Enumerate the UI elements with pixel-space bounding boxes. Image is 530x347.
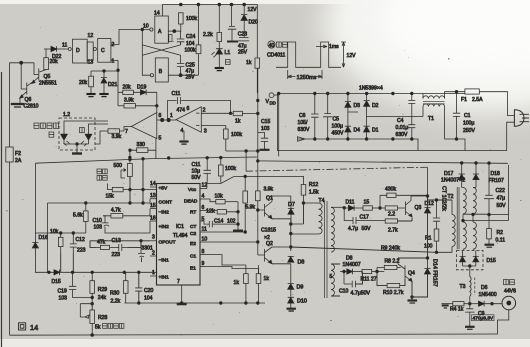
svg-text:500: 500 (114, 163, 123, 169)
svg-text:44V6: 44V6 (504, 289, 516, 295)
LED red (61, 128, 70, 146)
gate D (68, 39, 87, 63)
resistor R12 (301, 176, 319, 203)
svg-text:TL494: TL494 (173, 233, 188, 239)
resistor 2.2q3 (385, 206, 404, 218)
capacitor C19 (58, 272, 93, 301)
svg-text:10k: 10k (215, 194, 224, 200)
svg-text:7: 7 (125, 129, 128, 135)
wire op2 gnd pin (183, 131, 185, 140)
resistor 5.9k (243, 176, 256, 232)
svg-text:10: 10 (143, 24, 149, 30)
svg-text:1k: 1k (246, 60, 252, 66)
svg-text:−IN2: −IN2 (159, 210, 170, 216)
terminal VDD (266, 93, 279, 106)
svg-text:A: A (158, 29, 162, 35)
svg-text:Q5: Q5 (44, 74, 51, 80)
diode D19 (137, 85, 157, 96)
wire left feed (34, 163, 36, 233)
transistor Q5 (31, 63, 57, 87)
svg-text:R4 1k: R4 1k (450, 307, 464, 313)
label no-load CJK (504, 280, 515, 285)
svg-text:6: 6 (202, 205, 205, 211)
svg-text:C14: C14 (214, 219, 224, 225)
pin 9 E1 (190, 261, 207, 272)
pot 500 (114, 151, 133, 181)
svg-text:6: 6 (187, 106, 190, 112)
diode D11 (345, 200, 363, 211)
capacitor C5 (323, 94, 344, 140)
diode D4 (345, 121, 360, 139)
zener D21 (101, 75, 118, 93)
wire D15 bottom (463, 265, 476, 277)
svg-text:RT: RT (190, 210, 196, 216)
top rail 12V (163, 3, 258, 58)
wire T2 sec mid2 (462, 215, 509, 222)
capacitor C23a (227, 5, 238, 42)
wire 20k D21 top (91, 70, 118, 77)
ground 20k (86, 94, 95, 97)
svg-text:D18: D18 (491, 171, 501, 177)
diode D2 (364, 94, 379, 113)
label CJK delay-adjust (97, 169, 107, 180)
svg-text:12V: 12V (347, 53, 357, 59)
diode D10 (288, 297, 307, 308)
rail mid y156 (277, 95, 506, 151)
wire T2 primary (437, 200, 453, 252)
label C9 value (472, 315, 495, 322)
wire bridge AC nodes (348, 112, 423, 121)
svg-text:104: 104 (144, 296, 153, 302)
svg-text:C19: C19 (58, 289, 68, 295)
resistor 15 (363, 200, 385, 211)
ground op2 (179, 142, 188, 145)
pin 2 -IN1 (150, 251, 169, 264)
svg-text:IC1: IC1 (176, 224, 184, 230)
svg-text:D: D (76, 48, 80, 54)
pin 1 +IN1 (150, 270, 169, 281)
svg-text:+IN1: +IN1 (159, 275, 170, 281)
svg-text:D19: D19 (137, 85, 147, 91)
svg-text:2.2k: 2.2k (111, 299, 121, 305)
svg-text:11: 11 (62, 43, 67, 49)
svg-text:1N5399×4: 1N5399×4 (359, 86, 383, 92)
rail bottom (10, 334, 498, 337)
svg-text:Q4: Q4 (408, 271, 415, 277)
resistor 15k (106, 158, 157, 204)
svg-text:C10: C10 (93, 218, 103, 224)
ground D10 (287, 309, 296, 311)
svg-text:C1: C1 (464, 113, 471, 119)
svg-text:2: 2 (112, 42, 115, 48)
wire op2 in- (201, 112, 232, 115)
pin 10 E2 (190, 237, 207, 248)
svg-text:50V: 50V (497, 203, 507, 209)
gate pins 12 13 (87, 33, 93, 66)
diode D17b (473, 164, 479, 187)
svg-text:C20: C20 (144, 288, 154, 294)
svg-text:R30: R30 (110, 291, 120, 297)
label green CJK (80, 128, 85, 133)
svg-text:F1: F1 (461, 97, 467, 103)
pin 5 CT (190, 217, 208, 231)
wire Q3 (411, 195, 429, 198)
choke T1 (423, 96, 445, 122)
capacitor C25 (168, 63, 198, 81)
svg-text:1k: 1k (264, 276, 270, 282)
svg-text:5: 5 (202, 217, 205, 223)
dashed box D15 (457, 251, 484, 270)
svg-text:F2: F2 (15, 151, 21, 157)
resistor 330 (129, 142, 156, 158)
resistor 47k (96, 240, 115, 250)
wire led common (64, 143, 89, 153)
svg-text:1k: 1k (235, 119, 241, 125)
capacitor C1 (453, 90, 476, 140)
transformer T2 (448, 185, 477, 249)
svg-text:C2: C2 (190, 231, 196, 237)
svg-text:Q3: Q3 (415, 205, 422, 211)
transistor Q2 (258, 241, 291, 264)
svg-text:2.5A: 2.5A (472, 97, 483, 103)
resistor 20k horiz (118, 85, 138, 95)
fuse F1 (461, 89, 483, 103)
diode D15b (473, 251, 479, 267)
svg-text:100k: 100k (225, 166, 236, 172)
wire indicator top (64, 121, 108, 144)
pin 6 RT (190, 205, 217, 216)
svg-text:D16: D16 (39, 235, 49, 241)
pin 4 DEAD (184, 194, 216, 205)
svg-text:D11: D11 (346, 200, 355, 206)
svg-text:2A: 2A (15, 158, 22, 164)
svg-text:102: 102 (227, 219, 236, 225)
svg-text:3301: 3301 (142, 246, 153, 252)
svg-text:1: 1 (112, 59, 115, 65)
jack output (502, 296, 516, 310)
svg-text:9: 9 (202, 261, 205, 267)
ground L1 (215, 68, 224, 71)
resistor 3.9k r (256, 187, 274, 256)
diode D6 (469, 301, 502, 307)
label fig14 (19, 323, 39, 332)
svg-text:D3: D3 (354, 103, 361, 109)
diode D22 (44, 43, 68, 61)
wire op1 inputs link (156, 118, 176, 150)
capacitor C24 (177, 31, 196, 47)
label 44V6 (504, 289, 516, 295)
svg-text:T1: T1 (428, 116, 434, 122)
svg-text:14: 14 (30, 323, 38, 332)
svg-text:630V: 630V (298, 127, 310, 133)
capacitor C9 (465, 304, 485, 326)
diode D8b (340, 256, 362, 275)
svg-text:105/: 105/ (298, 120, 308, 126)
diode D15a (460, 251, 466, 267)
resistor R10 (377, 272, 405, 297)
svg-text:223: 223 (112, 252, 121, 258)
wire VDD down (278, 94, 280, 157)
arrow 1ms (316, 44, 339, 50)
svg-text:D8: D8 (298, 260, 305, 266)
svg-text:3: 3 (204, 129, 207, 135)
label CD4011 (267, 53, 285, 59)
transistor Q3 (404, 196, 421, 217)
resistor 100k fb (224, 129, 243, 151)
wire D15 top feed (463, 249, 473, 252)
svg-text:D15: D15 (487, 258, 497, 264)
svg-text:R1: R1 (425, 236, 432, 242)
ground pin7 (177, 303, 187, 306)
svg-text:3.9k: 3.9k (264, 187, 274, 193)
label red CJK (226, 60, 231, 65)
svg-text:4: 4 (202, 194, 205, 200)
svg-text:Q1: Q1 (266, 196, 273, 202)
rail mid y165 (258, 161, 508, 165)
svg-text:DEAD: DEAD (184, 199, 198, 205)
pot R28 (80, 304, 107, 336)
resistor 20k (pulldown) (79, 76, 94, 93)
scan edge line (1, 72, 3, 347)
svg-text:OPOUT: OPOUT (159, 240, 176, 246)
svg-text:50V: 50V (362, 226, 372, 232)
resistor 100k A (179, 13, 198, 32)
svg-text:5: 5 (330, 274, 333, 280)
svg-text:1N5400: 1N5400 (479, 292, 497, 298)
svg-text:1250ms: 1250ms (297, 75, 317, 81)
transistor Q6 (20, 63, 39, 110)
svg-text:D9: D9 (297, 285, 304, 291)
wire Q1 collector rail (272, 196, 291, 203)
svg-text:C11: C11 (192, 162, 201, 168)
svg-text:1N4007: 1N4007 (343, 262, 361, 268)
svg-text:+5V: +5V (159, 186, 168, 192)
capacitor C13 (112, 238, 129, 258)
svg-text:103: 103 (261, 126, 270, 132)
LED L1 (212, 49, 231, 67)
svg-text:14: 14 (154, 11, 160, 17)
svg-text:50V: 50V (192, 175, 202, 181)
resistor 10k dead (215, 194, 239, 204)
capacitor C10b (339, 272, 370, 297)
ground R4 (442, 304, 450, 308)
plug AC (479, 92, 529, 151)
diode D15L (49, 270, 61, 286)
svg-text:47μ: 47μ (497, 196, 506, 202)
svg-text:C4: C4 (397, 118, 404, 124)
fuse F2 (6, 147, 22, 164)
svg-text:E2: E2 (190, 241, 196, 247)
svg-text:100μ: 100μ (463, 121, 474, 127)
capacitor C20 (135, 271, 153, 303)
gate C (93, 39, 114, 65)
gate A (150, 11, 169, 44)
svg-text:2: 2 (203, 108, 206, 114)
svg-text:C22: C22 (496, 188, 506, 194)
svg-text:104: 104 (186, 41, 195, 47)
svg-text:3.9k: 3.9k (124, 98, 134, 104)
label C1815 x2 (261, 228, 276, 242)
label red2 CJK (49, 132, 54, 137)
svg-text:12: 12 (88, 33, 94, 39)
svg-text:10μ: 10μ (192, 169, 201, 175)
rail AC top (277, 92, 465, 95)
svg-text:R29: R29 (98, 287, 108, 293)
resistor R30 (110, 272, 128, 304)
pin 11 C2 (190, 227, 207, 238)
svg-text:7: 7 (177, 279, 180, 285)
svg-text:20k: 20k (123, 85, 132, 91)
wire op1 pin6 drop (156, 92, 159, 113)
resistor 10k left (50, 229, 63, 253)
svg-text:R28: R28 (98, 315, 108, 321)
label D6 (479, 285, 497, 298)
svg-text:R2: R2 (497, 230, 504, 236)
pin 8 C1 (190, 249, 207, 260)
dim 1250ms (288, 70, 322, 81)
svg-text:100k: 100k (231, 132, 242, 138)
svg-text:1: 1 (152, 270, 155, 276)
label CJK volt-adjust (95, 324, 124, 331)
svg-text:1k: 1k (234, 280, 240, 286)
svg-text:13: 13 (88, 60, 94, 66)
svg-text:D12: D12 (425, 201, 435, 207)
capacitor C12 (70, 233, 86, 254)
svg-text:4.7μ: 4.7μ (348, 226, 358, 232)
svg-text:D10: D10 (297, 299, 307, 305)
svg-text:D20: D20 (249, 20, 259, 26)
svg-text:4: 4 (181, 128, 184, 134)
resistor 1k op2 (231, 111, 260, 124)
svg-text:D2: D2 (372, 103, 379, 109)
gate B (150, 58, 168, 82)
resistor R2 (487, 215, 506, 244)
label D14 vert (432, 259, 438, 287)
transformer T4 (319, 198, 335, 298)
svg-text:C10: C10 (339, 289, 349, 295)
svg-text:D14 FR157: D14 FR157 (432, 259, 438, 287)
resistor R29 (90, 272, 107, 310)
resistor 100k B (185, 5, 201, 76)
svg-text:R12: R12 (309, 182, 319, 188)
svg-text:100: 100 (424, 244, 433, 250)
pin 3 OPOUT (150, 235, 176, 246)
wire jack down (497, 310, 508, 334)
svg-text:CT 102/2k: CT 102/2k (441, 186, 447, 211)
svg-text:4.7k: 4.7k (111, 208, 121, 214)
svg-text:100k: 100k (186, 16, 197, 22)
svg-text:1.5k: 1.5k (309, 190, 319, 196)
diode D14 (412, 258, 431, 297)
svg-text:12k: 12k (206, 209, 215, 215)
svg-text:D7: D7 (288, 202, 295, 208)
svg-text:1ms: 1ms (329, 44, 339, 50)
inductor T3 (460, 277, 475, 304)
wire C pin2 to A (111, 24, 150, 45)
pin 14 +5V (150, 181, 168, 192)
ground C14 (233, 229, 243, 232)
svg-text:2.2k: 2.2k (203, 32, 213, 38)
waveform pulses (276, 42, 341, 67)
svg-text:C11: C11 (172, 91, 181, 97)
diode D1 (364, 121, 379, 139)
capacitor C6 (298, 94, 319, 140)
capacitor C11 10u (192, 157, 211, 183)
svg-text:Q6: Q6 (25, 97, 32, 103)
svg-text:5.9k: 5.9k (246, 205, 256, 211)
svg-text:R10 2.7k: R10 2.7k (383, 290, 404, 296)
svg-text:15k: 15k (106, 194, 115, 200)
wire C2 E2 (207, 231, 260, 244)
svg-text:430k: 430k (385, 187, 396, 193)
diode D7 (288, 202, 295, 224)
svg-text:8: 8 (202, 249, 205, 255)
resistor 1k e1b (256, 265, 269, 303)
svg-text:B: B (159, 69, 163, 75)
wire T4 lower sec (331, 264, 340, 296)
svg-text:C1: C1 (190, 254, 196, 260)
resistor R8 (377, 259, 401, 272)
label R9 240k (291, 246, 438, 254)
transistor Q4 (398, 258, 415, 282)
svg-text:223: 223 (77, 248, 86, 254)
resistor 100k mid (219, 157, 237, 183)
svg-text:CT: CT (190, 224, 196, 230)
label D15r (487, 258, 497, 264)
pin 12 Vcc (188, 183, 207, 194)
svg-text:C12: C12 (76, 237, 86, 243)
wire T1 to fuse (423, 92, 465, 151)
wire op2 in+ (201, 126, 226, 129)
label 1N5399x4 (359, 86, 383, 92)
resistor 2.2k (203, 5, 222, 49)
rail y303 (124, 302, 265, 305)
wire T2 sec mid (463, 165, 509, 222)
svg-text:D15: D15 (52, 279, 62, 285)
svg-text:5k: 5k (95, 325, 101, 331)
capacitor C10 (93, 216, 151, 233)
svg-text:FR107: FR107 (489, 178, 504, 184)
ground Q4 (408, 301, 418, 304)
op-amp U2B (170, 106, 207, 135)
svg-text:T3: T3 (460, 284, 466, 290)
svg-text:0.01μ: 0.01μ (396, 125, 409, 131)
rail y157 (35, 156, 257, 163)
svg-text:D21: D21 (108, 82, 118, 88)
svg-text:474: 474 (177, 108, 186, 114)
label 12V (248, 7, 258, 13)
svg-text:13: 13 (150, 193, 156, 199)
svg-text:3.9k: 3.9k (112, 134, 122, 140)
svg-text:10: 10 (202, 237, 208, 243)
svg-text:C24: C24 (186, 34, 196, 40)
svg-text:CONT: CONT (159, 200, 173, 206)
resistor R11 (361, 269, 385, 282)
resistor 3.9k b (100, 127, 131, 141)
svg-text:E1: E1 (190, 266, 196, 272)
rail AC bottom (298, 137, 419, 151)
LED green (81, 128, 92, 146)
wire A out (168, 30, 180, 42)
svg-text:R8 2.2: R8 2.2 (385, 259, 400, 265)
svg-text:1: 1 (170, 113, 173, 119)
svg-text:1.2: 1.2 (63, 112, 70, 118)
svg-text:20k: 20k (50, 59, 59, 65)
svg-text:100k: 100k (185, 48, 196, 54)
pin 13 CONT (150, 193, 172, 206)
resistor R4 (450, 302, 470, 313)
svg-text:1N4007×2: 1N4007×2 (441, 178, 465, 184)
